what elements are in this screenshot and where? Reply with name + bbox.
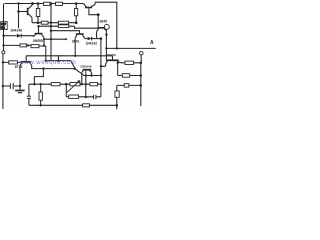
- node junction: [140, 84, 143, 87]
- wire Q3 emitter down: [105, 29, 107, 60]
- resistor R19 (on rail y22.7): [41, 21, 48, 24]
- node junction: [50, 2, 53, 5]
- node junction: [42, 67, 44, 69]
- wire Q3 collector: [96, 31, 98, 38]
- resistor R14: [51, 83, 60, 86]
- node junction: [140, 62, 143, 65]
- wire Q6 collector: [32, 65, 75, 68]
- node junction: [74, 68, 76, 70]
- wire mid rail x28.9: [28, 84, 30, 105]
- wire row2 left y75.5: [84, 75, 102, 77]
- node junction: [75, 2, 78, 5]
- node junction: [105, 34, 107, 36]
- node input terminal: [2, 51, 5, 54]
- wire down to y60.7: [45, 46, 47, 61]
- node junction: [37, 25, 39, 27]
- wire Q7 right foot: [91, 72, 93, 75]
- wire Q8 left foot: [101, 64, 106, 66]
- node junction: [45, 60, 47, 62]
- resistor R12: [122, 74, 129, 78]
- resistor R2 (vertical): [37, 4, 39, 23]
- wire output A: [106, 47, 155, 49]
- transistor Q5 3641: [76, 33, 84, 35]
- ground: [15, 90, 24, 92]
- resistor R11: [125, 61, 134, 64]
- svg-text:A: A: [150, 40, 154, 46]
- svg-text:www.weeqoo.com: www.weeqoo.com: [19, 60, 76, 66]
- resistor R10 (input to Q6): [3, 61, 21, 63]
- resistor R3 (on top rail): [44, 2, 51, 5]
- node junction: [40, 104, 42, 106]
- wire base of Q1: [19, 11, 28, 13]
- svg-text:3645: 3645: [100, 19, 108, 23]
- node junction: [100, 83, 102, 85]
- svg-text:2N5551: 2N5551: [33, 39, 45, 43]
- node junction: [27, 44, 29, 46]
- node output terminal circle: [140, 51, 144, 55]
- node junction: [65, 83, 68, 86]
- wire Q7 left foot: [81, 72, 83, 84]
- wire vertical x18.5: [18, 4, 20, 29]
- node junction: [37, 21, 40, 24]
- wire rail y22.7: [32, 22, 76, 24]
- wire Q5 emitter down: [74, 38, 76, 56]
- wire bottom rail: [29, 104, 117, 106]
- transistor Q2: [85, 7, 92, 9]
- node emitter terminal circle: [104, 24, 109, 29]
- node junction: [100, 37, 103, 40]
- diode D1 1N4148: [4, 35, 17, 37]
- node junction: [43, 38, 45, 40]
- wire terminal lead: [140, 55, 142, 63]
- node junction: [2, 44, 4, 46]
- svg-text:3641: 3641: [72, 40, 80, 44]
- node junction: [17, 10, 20, 13]
- wire rail y26.2 with jog to y28.2: [39, 26, 98, 28]
- resistor R9: [31, 45, 39, 48]
- node junction: [50, 25, 52, 27]
- resistor R6: [58, 25, 69, 28]
- node junction: [100, 65, 102, 67]
- wire y60.7: [46, 60, 71, 62]
- node junction: [74, 55, 76, 57]
- potentiometer RP1 (box on wire with arrow): [70, 83, 80, 86]
- wire Q8 emitter row y63.9: [120, 62, 141, 64]
- node junction: [140, 74, 143, 77]
- resistor R7 (vertical): [75, 4, 77, 23]
- node junction: [2, 85, 4, 87]
- node junction: [33, 83, 35, 85]
- svg-text:35V: 35V: [1, 22, 6, 26]
- node junction: [85, 83, 87, 85]
- wire T3 base vertical: [97, 15, 99, 28]
- svg-text:1N4148: 1N4148: [10, 29, 22, 33]
- node junction: [85, 96, 87, 98]
- wire row y75.5: [118, 63, 141, 76]
- node junction: [31, 2, 34, 5]
- wire row y85.4: [117, 84, 141, 86]
- transistor Q1: [27, 8, 29, 15]
- resistor R17: [83, 104, 90, 107]
- wire bottom block top y84.2: [29, 83, 101, 85]
- node junction: [97, 13, 100, 16]
- capacitor C1 (input, left): [3, 85, 20, 87]
- node junction: [85, 74, 87, 76]
- wire vertical x100.9: [100, 39, 102, 97]
- wire top right rail: [95, 2, 117, 48]
- diode D2 1N4142: [85, 38, 88, 40]
- wire vertical x58.5: [58, 55, 60, 61]
- node junction: [2, 61, 4, 63]
- svg-text:2SD649: 2SD649: [80, 65, 91, 69]
- wire slope down to T4 path: [71, 61, 75, 69]
- wire Q7 emitter stem: [85, 75, 87, 97]
- wire vertical x51: [50, 4, 52, 61]
- wire left rail upper: [3, 4, 5, 51]
- node junction: [50, 30, 52, 32]
- wire Q2 base: [89, 8, 98, 14]
- capacitor C4: [93, 95, 95, 99]
- node junction: [75, 21, 78, 24]
- node junction: [2, 35, 4, 37]
- resistor R4 (on top rail): [56, 2, 63, 5]
- transistor Q7 2SD649: [83, 69, 92, 71]
- svg-text:9R: 9R: [1, 26, 4, 30]
- node junction: [100, 74, 102, 76]
- resistor R13 (vertical): [116, 85, 118, 109]
- capacitor C2 (small box): [124, 84, 129, 87]
- wire Q1 emitter: [31, 18, 33, 23]
- node junction: [40, 83, 42, 85]
- resistor R16 (vertical): [40, 84, 42, 105]
- node junction: [81, 83, 83, 85]
- wire y97: [66, 96, 101, 98]
- transistor Q4 2N5551: [35, 33, 43, 35]
- wire left rail lower: [2, 54, 4, 109]
- node junction: [37, 2, 40, 5]
- transistor Q3: [98, 27, 106, 29]
- node junction: [43, 44, 45, 46]
- wire Q4 right foot: [43, 37, 45, 45]
- wire right rail lower: [140, 63, 142, 106]
- wire top rail: [5, 3, 84, 5]
- transistor Q8 2SD56: [106, 59, 119, 61]
- wire slope into T4 base: [75, 69, 84, 75]
- node junction: [19, 85, 21, 87]
- resistor R18: [69, 95, 79, 98]
- node junction: [105, 47, 107, 49]
- capacitor C3 (in rail): [27, 95, 31, 97]
- resistor R15: [90, 83, 98, 86]
- wire jog down: [34, 69, 43, 85]
- wire Q6 emitter to ground: [19, 65, 21, 90]
- node junction: [116, 47, 118, 49]
- svg-text:2SD56: 2SD56: [106, 53, 116, 57]
- wire Q5 base rail y30.7: [51, 31, 80, 34]
- resistor R1 (boxed label on left rail): [1, 22, 8, 30]
- wire y45.4: [3, 44, 46, 47]
- wire y39.2: [44, 38, 66, 40]
- node junction: [50, 38, 52, 40]
- wire pot tap down: [65, 84, 67, 97]
- svg-text:1N4142: 1N4142: [86, 42, 98, 46]
- node junction: [116, 104, 119, 107]
- node junction: [117, 62, 119, 64]
- node junction: [17, 2, 19, 4]
- node junction: [90, 74, 92, 76]
- resistor R8: [20, 44, 27, 47]
- wire long feedback y55.8: [26, 55, 112, 57]
- transistor Q6 (driver, BT15): [21, 61, 31, 63]
- resistor R5: [58, 21, 68, 24]
- node junction: [50, 22, 52, 24]
- node junction: [57, 60, 59, 62]
- node junction: [65, 38, 67, 40]
